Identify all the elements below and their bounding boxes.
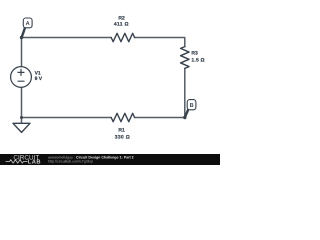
svg-text:330 Ω: 330 Ω — [115, 134, 130, 140]
wire top from node A to R2 — [22, 37, 112, 39]
resistor R2 — [111, 33, 134, 41]
svg-text:http://circuitlab.com/c7g3bqr: http://circuitlab.com/c7g3bqr — [48, 159, 94, 163]
node B box — [187, 100, 196, 110]
footer logo resistor zigzag — [6, 160, 28, 163]
wire bottom from R1 to left junction — [22, 117, 112, 119]
ground — [13, 123, 30, 132]
svg-text:411 Ω: 411 Ω — [114, 22, 129, 28]
svg-text:LAB: LAB — [28, 160, 41, 166]
svg-text:9 V: 9 V — [35, 76, 43, 82]
wire bottom from right corner to R1 — [135, 117, 185, 119]
footer bar — [0, 154, 220, 165]
junction dot node A — [20, 36, 23, 39]
voltage source V1 circle — [11, 67, 32, 88]
svg-text:1.5 Ω: 1.5 Ω — [191, 57, 204, 63]
resistor R1 — [111, 113, 134, 121]
svg-text:R3: R3 — [191, 51, 198, 57]
junction dot node B — [183, 116, 186, 119]
wire right from R3 to bottom corner — [184, 68, 186, 117]
junction dot bottom-left — [20, 116, 23, 119]
svg-text:A: A — [26, 21, 30, 27]
svg-text:B: B — [190, 103, 194, 109]
node A box — [23, 18, 32, 28]
svg-text:R1: R1 — [118, 128, 125, 134]
node A callout tail — [22, 27, 26, 37]
node B callout tail — [185, 108, 189, 117]
V1 plus sign — [18, 69, 24, 75]
wire from V1 to ground junction — [21, 87, 23, 117]
wire stub to ground — [21, 118, 23, 124]
resistor R3 — [181, 47, 190, 69]
wire top from R2 to right corner — [135, 38, 185, 47]
wire left from node A down to V1 — [21, 38, 23, 67]
V1 minus sign — [18, 80, 24, 82]
